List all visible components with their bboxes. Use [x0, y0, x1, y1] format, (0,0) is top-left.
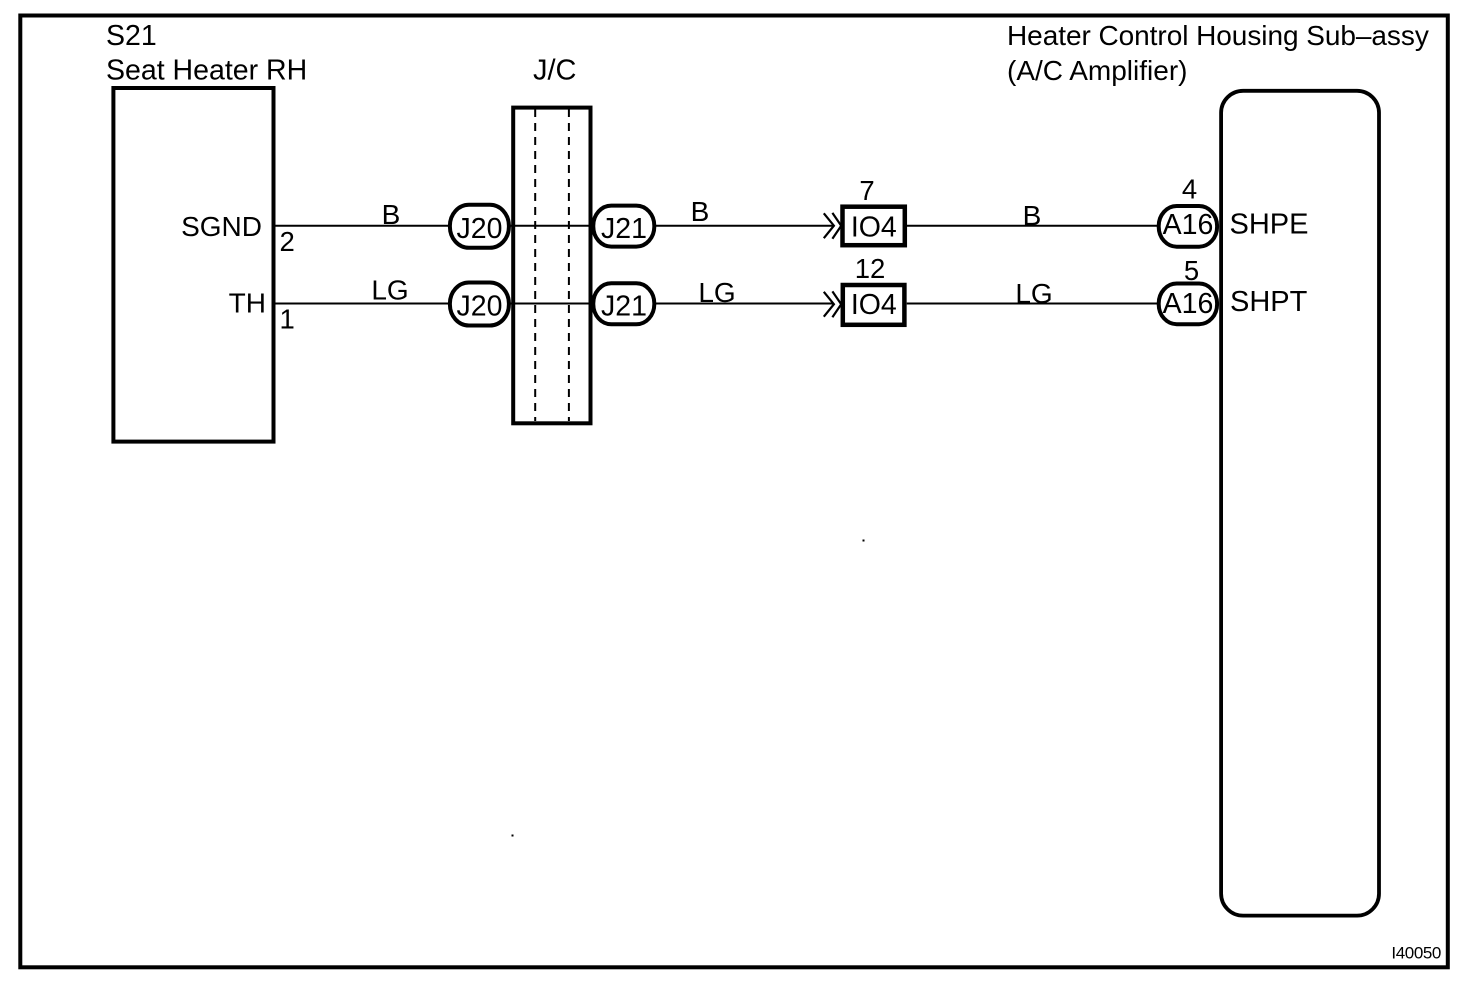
svg-text:J/C: J/C: [533, 55, 577, 87]
svg-text:Heater Control Housing Sub–ass: Heater Control Housing Sub–assy: [1007, 20, 1429, 51]
svg-text:B: B: [691, 196, 710, 227]
svg-text:B: B: [382, 199, 401, 230]
svg-text:TH: TH: [229, 288, 266, 319]
svg-text:1: 1: [280, 304, 295, 335]
svg-text:SHPT: SHPT: [1230, 286, 1308, 318]
svg-text:J20: J20: [457, 213, 503, 245]
svg-text:J20: J20: [457, 291, 503, 323]
svg-text:I40050: I40050: [1391, 944, 1441, 963]
svg-text:IO4: IO4: [851, 212, 897, 244]
svg-text:LG: LG: [371, 275, 408, 306]
svg-text:B: B: [1023, 200, 1042, 231]
svg-text:LG: LG: [1015, 278, 1052, 309]
svg-text:LG: LG: [698, 277, 735, 308]
svg-text:Seat Heater RH: Seat Heater RH: [106, 55, 307, 87]
svg-text:4: 4: [1182, 174, 1197, 205]
svg-text:A16: A16: [1163, 209, 1214, 241]
svg-text:A16: A16: [1163, 288, 1214, 320]
svg-text:2: 2: [280, 226, 295, 257]
svg-text:J21: J21: [601, 213, 647, 245]
svg-text:IO4: IO4: [851, 289, 897, 321]
svg-text:5: 5: [1184, 255, 1199, 286]
svg-text:7: 7: [859, 175, 874, 206]
svg-text:SGND: SGND: [181, 211, 262, 242]
svg-text:SHPE: SHPE: [1230, 209, 1309, 241]
svg-text:J21: J21: [601, 291, 647, 323]
svg-text:(A/C Amplifier): (A/C Amplifier): [1007, 55, 1187, 86]
svg-text:S21: S21: [106, 20, 157, 52]
svg-text:12: 12: [855, 253, 886, 284]
